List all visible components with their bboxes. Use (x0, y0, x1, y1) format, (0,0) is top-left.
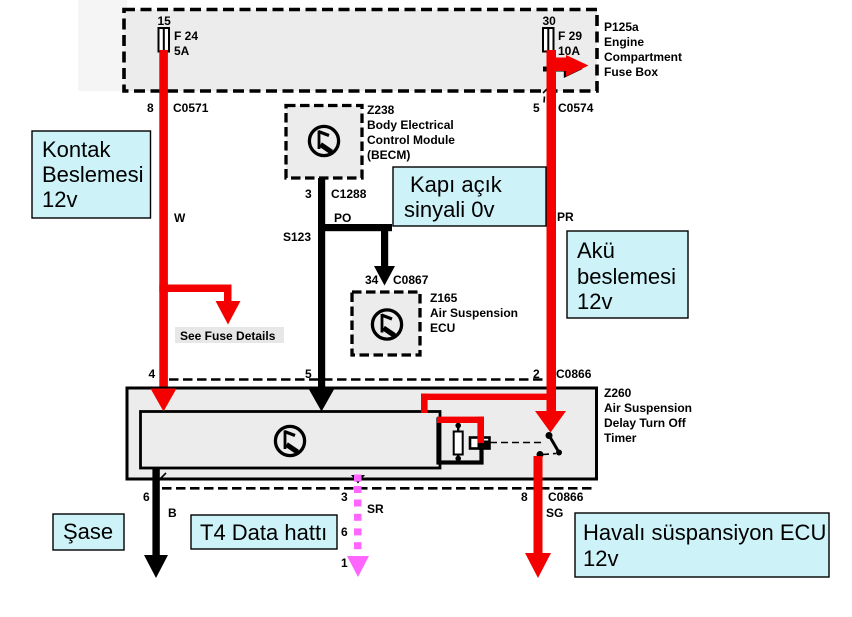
pin 6 (SR) (341, 525, 348, 539)
svg-text:Şase: Şase (63, 519, 113, 544)
svg-text:C1288: C1288 (331, 187, 367, 201)
pin 15 label (158, 14, 172, 28)
note Sase (53, 514, 124, 550)
svg-text:5: 5 (533, 101, 540, 115)
svg-text:P125a: P125a (604, 20, 639, 34)
svg-text:12v: 12v (583, 546, 618, 571)
wire label B (168, 506, 177, 520)
svg-text:W: W (174, 211, 186, 225)
red branch arrow to See Fuse Details (159, 285, 240, 325)
svg-text:30: 30 (543, 14, 557, 28)
hidden black arrow under red arrow (543, 60, 583, 78)
svg-text:34: 34 (365, 273, 379, 287)
svg-text:sinyali 0v: sinyali 0v (404, 197, 494, 222)
svg-text:T4 Data hattı: T4 Data hattı (200, 520, 327, 545)
switch (relay contact) (490, 432, 562, 458)
pin 6 (143, 490, 150, 504)
svg-text:12v: 12v (42, 187, 77, 212)
connector C0866 label (556, 367, 592, 381)
svg-text:5: 5 (305, 367, 312, 381)
pin 4 (149, 367, 156, 381)
svg-text:C0866: C0866 (548, 490, 584, 504)
tick at B wire crossing (158, 473, 166, 481)
wire PO black from Z238 down to Z260 (318, 178, 325, 390)
tick at C0574 crossing (543, 87, 550, 103)
red wire branch inside Z260 (to inner module) (421, 394, 556, 413)
svg-text:C0866: C0866 (556, 367, 592, 381)
svg-text:C0571: C0571 (173, 101, 209, 115)
note Kapi acik sinyali 0v (393, 167, 546, 226)
note T4 Data hatti (191, 515, 337, 549)
wire SG red from switch down (525, 456, 551, 578)
svg-text:15: 15 (158, 14, 172, 28)
svg-text:Compartment: Compartment (604, 50, 682, 64)
svg-text:Air Suspension: Air Suspension (430, 306, 518, 320)
arrowhead red pin 4 into timer (151, 389, 177, 412)
svg-text:Havalı süspansiyon ECU: Havalı süspansiyon ECU (583, 520, 826, 545)
svg-text:Z238: Z238 (367, 103, 395, 117)
module Z238 BECM (286, 106, 362, 179)
module Z165 Air Suspension ECU (352, 292, 420, 355)
svg-text:Kontak: Kontak (42, 137, 111, 162)
connector C0867 pin 34 (365, 273, 429, 287)
connector C0574 pin 5 (533, 101, 594, 115)
svg-text:Air Suspension: Air Suspension (604, 401, 692, 415)
svg-text:See Fuse Details: See Fuse Details (180, 329, 276, 343)
fuse F29 10A (543, 28, 582, 58)
wire SR pink dashed (T4 data line) (347, 475, 369, 578)
connector line C0866 top (dashed) (169, 378, 546, 381)
pin 2 (533, 367, 540, 381)
resistor R (timer coil) (454, 421, 463, 461)
svg-text:8: 8 (147, 101, 154, 115)
svg-text:10A: 10A (558, 44, 580, 58)
svg-text:Engine: Engine (604, 35, 644, 49)
svg-text:SR: SR (367, 502, 384, 516)
svg-text:C0574: C0574 (558, 101, 594, 115)
wire label SR (367, 502, 384, 516)
wire label W (174, 211, 186, 225)
connector line C0866 bottom (dashed) (162, 487, 596, 490)
svg-text:Timer: Timer (604, 431, 637, 445)
svg-text:B: B (168, 506, 177, 520)
label Z260 Air Suspension Delay Turn Off Timer (604, 386, 692, 445)
red wire over relay frame (437, 417, 484, 444)
svg-text:Z165: Z165 (430, 291, 458, 305)
connector C0571 pin 8 (147, 101, 209, 115)
svg-text:Kapı açık: Kapı açık (410, 172, 503, 197)
wire label PR (557, 210, 574, 224)
svg-text:2: 2 (533, 367, 540, 381)
arrowhead black pin 5 into timer (309, 389, 335, 412)
svg-text:F 29: F 29 (558, 29, 582, 43)
svg-text:12v: 12v (577, 289, 612, 314)
svg-text:1: 1 (341, 556, 348, 570)
arrow to fuse box detail (red right arrow) (552, 55, 589, 77)
Z260 inner module box (141, 412, 441, 469)
svg-text:F 24: F 24 (174, 29, 198, 43)
svg-text:PO: PO (334, 211, 351, 225)
svg-text:6: 6 (341, 525, 348, 539)
pin 8 (521, 490, 528, 504)
svg-text:Body Electrical: Body Electrical (367, 118, 454, 132)
fuse F24 5A (159, 28, 199, 58)
svg-text:8: 8 (521, 490, 528, 504)
svg-text:Beslemesi: Beslemesi (42, 162, 143, 187)
pin 5 (305, 367, 312, 381)
svg-text:C0867: C0867 (393, 273, 429, 287)
wire W red (ignition feed) from F24 down (159, 50, 168, 390)
Z260 icon (275, 426, 304, 455)
svg-text:3: 3 (341, 490, 348, 504)
note Kontak Beslemesi 12v (32, 131, 151, 218)
svg-text:Akü: Akü (577, 238, 615, 263)
label P125a Engine Compartment Fuse Box (604, 20, 682, 79)
svg-text:S123: S123 (283, 230, 311, 244)
svg-text:3: 3 (305, 187, 312, 201)
wire branch to Z165 (318, 224, 395, 286)
label Z165 Air Suspension ECU (430, 291, 518, 335)
svg-text:Control Module: Control Module (367, 133, 455, 147)
svg-text:Z260: Z260 (604, 386, 632, 400)
pin 3 (341, 490, 348, 504)
connector C1288 pin 3 (305, 187, 367, 201)
svg-text:ECU: ECU (430, 321, 455, 335)
Z165 icon (372, 310, 401, 339)
pin 30 label (543, 14, 557, 28)
timer Z260 box (127, 388, 597, 479)
pin 1 (SR) (341, 556, 348, 570)
svg-text:beslemesi: beslemesi (577, 264, 676, 289)
small black arrow under SR exit (351, 475, 365, 484)
svg-text:Delay Turn Off: Delay Turn Off (604, 416, 687, 430)
connector C0866 label bottom (548, 490, 584, 504)
svg-text:4: 4 (149, 367, 156, 381)
note Aku beslemesi 12v (567, 231, 688, 318)
svg-text:PR: PR (557, 210, 574, 224)
svg-text:(BECM): (BECM) (367, 148, 410, 162)
wire PR red (battery feed) from F29 down into Z260 (535, 50, 566, 433)
note Havali suspansiyon ECU 12v (575, 513, 829, 577)
relay coil frame inside Z260 (439, 420, 482, 463)
svg-text:Fuse Box: Fuse Box (604, 65, 658, 79)
Z238 icon (309, 126, 338, 155)
wire label SG (546, 506, 563, 520)
svg-text:6: 6 (143, 490, 150, 504)
plug terminal (470, 438, 490, 449)
svg-text:SG: SG (546, 506, 563, 520)
faint background band left of fuse box (78, 0, 127, 91)
fuse box P125a (124, 10, 597, 92)
node S123 splice (283, 230, 311, 244)
svg-text:5A: 5A (174, 44, 190, 58)
note See Fuse Details (175, 327, 284, 343)
wire B black (ground) from timer down (144, 468, 168, 578)
label Z238 Body Electrical Control Module (BECM) (367, 103, 455, 162)
wire label PO (334, 211, 351, 225)
